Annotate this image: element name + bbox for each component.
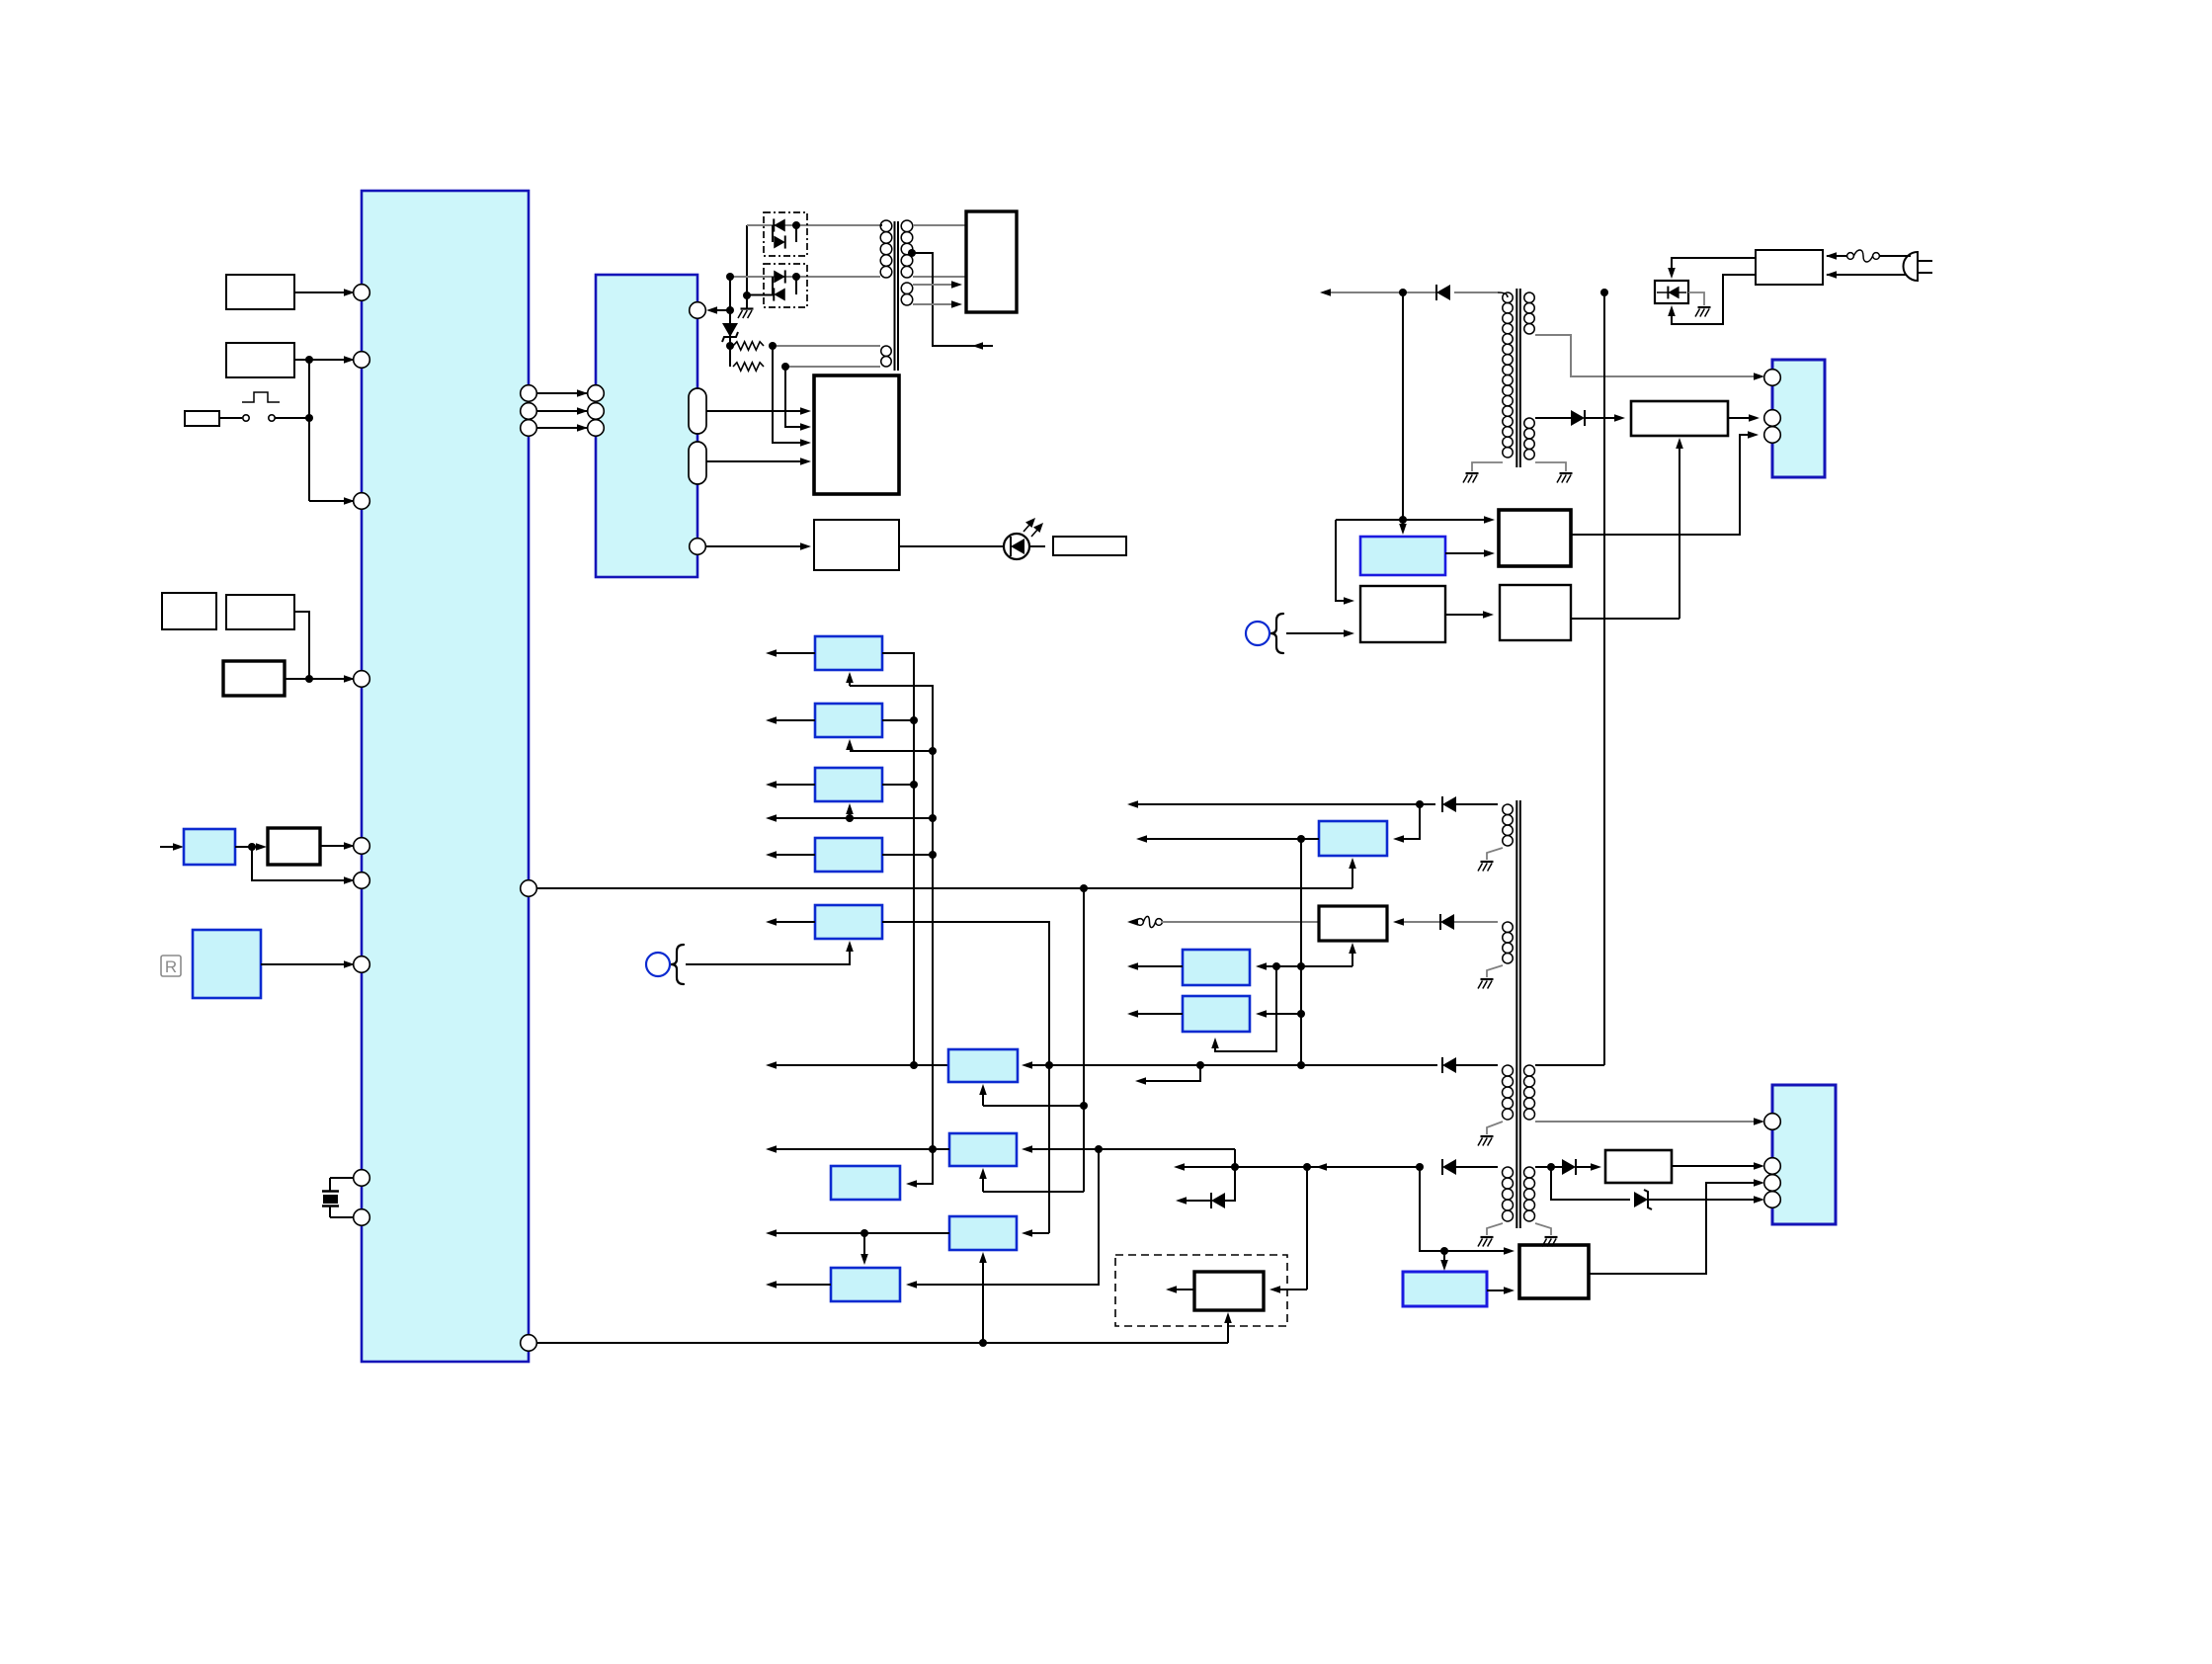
wire WB2 to WB3: [1445, 614, 1488, 616]
wire zener branch: [729, 277, 731, 367]
block LED driver: [814, 520, 899, 570]
optocoupler PC1: [764, 212, 807, 256]
transformer T2 core: [1516, 289, 1517, 467]
wire bus1 branch: [1083, 888, 1085, 1192]
wire W4 right: [1029, 1148, 1235, 1150]
block B8: [268, 828, 320, 865]
wire bus2 up: [1227, 1318, 1229, 1343]
wire W8 to CB2: [1264, 965, 1276, 967]
wire R12 out gray: [785, 366, 880, 368]
wire D3 to T3: [1456, 1064, 1498, 1066]
wire WB3 to REG1: [1571, 618, 1679, 620]
wire W9 feedback: [1336, 520, 1349, 601]
wire plug top: [1827, 255, 1846, 257]
wire pill2 to PA1: [706, 460, 803, 462]
node bus1 taps: [910, 716, 918, 724]
diode PC2a: [784, 270, 786, 283]
wire J bottom: [982, 1259, 984, 1343]
block A6: [223, 661, 285, 696]
block BB: [1519, 1245, 1589, 1298]
wire REGE right: [882, 922, 1049, 1233]
diode D3: [1441, 1057, 1443, 1073]
wire T1 aux2 gray: [913, 303, 954, 305]
wire T2 primary bottom gray: [1472, 462, 1503, 471]
wire A5 down: [294, 612, 309, 679]
icon remote R: [161, 956, 181, 976]
block SB standby: [1499, 510, 1571, 566]
zener ZD1: [722, 323, 738, 337]
wire bus1 to CB1: [1352, 864, 1353, 888]
wire W0 gray: [1331, 291, 1435, 293]
wire bus1: [536, 887, 1352, 889]
wire REG2 to CN2: [1672, 1165, 1759, 1167]
block LED label: [1053, 537, 1126, 555]
wire D7 out: [1187, 1200, 1211, 1202]
diode PC1b: [784, 235, 786, 248]
block REG1: [1631, 401, 1728, 436]
wire C3 to WB2: [1286, 632, 1349, 634]
wire REGD right: [882, 854, 933, 856]
ground G9: [1545, 1236, 1558, 1238]
wire W3 stub: [1146, 1065, 1200, 1081]
connector CN1: [1772, 360, 1825, 477]
block M1: [1194, 1272, 1264, 1310]
wire A6 to U1: [285, 678, 309, 680]
wire D1 to T3: [1456, 803, 1498, 805]
block CB5 cyan: [1360, 537, 1445, 575]
wire REG C out left: [777, 784, 815, 786]
block CB2 cyan: [1183, 950, 1250, 985]
wire bus2: [536, 1342, 1228, 1344]
diode D0: [1435, 285, 1437, 300]
wire W2 link: [1136, 921, 1138, 923]
wire M1 in: [1280, 1289, 1307, 1290]
wire REGC right: [882, 784, 914, 786]
wire B7 to B8: [235, 846, 252, 848]
block AC filter: [1756, 250, 1823, 285]
wire R11 out gray: [770, 345, 880, 347]
block A3 power switch unit: [185, 411, 219, 426]
LED light arrows: [1024, 524, 1030, 532]
block A1: [226, 275, 294, 309]
transformer T3 S2: [1503, 922, 1514, 933]
wire P2 to D5: [1551, 1166, 1562, 1168]
block J cyan: [949, 1216, 1017, 1250]
wire v1420: [1402, 292, 1404, 527]
wire REG B out left: [777, 719, 815, 721]
crystal X1: [330, 1177, 354, 1179]
wire CB1 left: [1147, 838, 1319, 840]
wire K out: [777, 1284, 831, 1286]
IC U2 mechanism control block: [596, 275, 697, 577]
wire to RB6 bottom: [983, 1105, 1084, 1107]
wire T1 aux1 gray: [913, 284, 954, 286]
wire M1 out: [1177, 1289, 1194, 1290]
transformer T3 P1: [1524, 1065, 1535, 1076]
dashed outline: [1115, 1255, 1287, 1326]
block REG2: [1605, 1150, 1672, 1183]
block CB1 cyan: [1319, 821, 1387, 856]
block fan driver FB1: [966, 211, 1017, 312]
wire REG A out left: [777, 652, 815, 654]
block RB6 cyan: [948, 1049, 1018, 1082]
wire opto left vertical: [746, 225, 748, 295]
LED D10: [1004, 534, 1029, 559]
wire W6 mid: [1235, 1166, 1420, 1168]
wire R11 to AMP: [773, 346, 803, 443]
ground G2: [1466, 472, 1479, 474]
switch S1 push type: [219, 417, 242, 419]
wire T1 tap: [912, 253, 993, 346]
wire C2 to REGE: [686, 947, 850, 964]
block H cyan: [831, 1166, 900, 1200]
ground G5: [1481, 861, 1494, 863]
block REG A cyan: [815, 636, 882, 670]
wire W3: [777, 1064, 948, 1066]
wire W6 left: [1185, 1166, 1235, 1168]
wire AC line2 gray: [730, 276, 880, 278]
wire SB to CN1 pin3: [1571, 435, 1753, 535]
diode D6: [1584, 410, 1586, 426]
wire WB1 bottom: [1352, 949, 1353, 966]
transformer T1 feedback winding: [881, 346, 892, 357]
pill pins U2: [689, 388, 706, 434]
block WB1: [1319, 906, 1387, 941]
wire REG D out left: [777, 854, 815, 856]
ground G4: [1698, 306, 1711, 308]
block A2: [226, 343, 294, 377]
node R-divider: [726, 342, 734, 350]
connector ring C2: [646, 953, 670, 976]
wire T1 sec bot gray: [913, 276, 966, 278]
wire T2 sec1 out gray: [1535, 335, 1759, 376]
transformer T2 sec1: [1524, 292, 1535, 303]
wire T2 sec2 to D6: [1535, 417, 1571, 419]
wire REGA bottom feed: [849, 683, 851, 686]
wire REGA right: [882, 653, 914, 1065]
wire BB out: [1589, 1183, 1759, 1274]
wire A1 to U1: [294, 291, 355, 293]
wire AC line1 gray: [747, 224, 880, 226]
wire REG1 bottom: [1679, 444, 1680, 619]
diode PC2b: [773, 288, 775, 300]
ground G8: [1481, 1236, 1494, 1238]
wire REG1 to CN1: [1728, 417, 1754, 419]
wire R12 to AMP: [785, 367, 803, 427]
wire W1 to CB1: [1401, 804, 1420, 839]
diode D2: [1439, 914, 1441, 930]
wire U1 to U2 y416: [536, 410, 588, 412]
block CB3 cyan: [1183, 996, 1250, 1032]
wire T3 P1 top: [1535, 1064, 1604, 1066]
wire v1317: [1300, 839, 1302, 1065]
IC U1 main system control block: [362, 191, 529, 1362]
wire U1 to U2 y398: [536, 392, 588, 394]
wire pin to node: [714, 309, 730, 311]
wire filter to bridge bottom: [1672, 275, 1756, 324]
transformer T2 primary: [1503, 292, 1513, 302]
transformer T1 secondary: [901, 220, 913, 232]
wire D6 to REG1: [1585, 417, 1619, 419]
transformer T1 aux winding: [901, 283, 913, 294]
wire W9: [1336, 519, 1489, 521]
wire T3 S4 gnd gray: [1487, 1223, 1503, 1235]
diode PC1a: [773, 218, 775, 231]
wire REGB bottom feed: [846, 739, 854, 750]
block A4: [162, 593, 216, 629]
wire plug top2: [1879, 255, 1911, 257]
wire driver to LED: [899, 545, 1004, 547]
wire pill1 to PA1: [706, 410, 803, 412]
wire filter to bridge top: [1672, 258, 1756, 273]
wire zener branch2: [1551, 1167, 1630, 1200]
svg-text:R: R: [165, 957, 177, 976]
fuse F1: [1847, 253, 1854, 260]
wire switch bus down: [308, 360, 310, 501]
zener ZD2: [1634, 1192, 1648, 1207]
wire to CB4: [1443, 1251, 1445, 1264]
wire x1112 to K: [914, 1149, 1099, 1285]
diode D4: [1441, 1159, 1443, 1175]
wire T2 sec2 bottom gray: [1535, 462, 1566, 471]
wire W6 to BB: [1420, 1167, 1509, 1251]
wire U2 to LED driver: [705, 545, 803, 547]
block REG C cyan: [815, 768, 882, 801]
connector CN2: [1772, 1085, 1836, 1224]
transformer T3 S4: [1503, 1167, 1514, 1178]
wire REGB right: [882, 719, 914, 721]
wire ZD2 to CN2: [1648, 1199, 1759, 1201]
wire v1624: [1603, 292, 1605, 1065]
transformer T1 core: [894, 221, 896, 371]
wire D2 to T3 gray: [1454, 921, 1498, 923]
wire W7: [777, 1232, 949, 1234]
block CB4 cyan: [1403, 1272, 1487, 1306]
wire bridge gnd gray: [1688, 292, 1704, 305]
wire W2 gray: [1162, 921, 1319, 923]
transformer T3 core: [1516, 800, 1517, 1228]
wire v1292 to CB3: [1215, 966, 1276, 1051]
resistor R12: [733, 363, 764, 371]
wire B7 branch to U1: [252, 847, 355, 880]
wire CB2 left: [1138, 965, 1183, 967]
block REG D cyan: [815, 838, 882, 872]
block A5: [226, 595, 294, 629]
wire CB4 to BB: [1487, 1290, 1509, 1291]
wire to G bottom: [983, 1191, 1084, 1193]
node W0 b: [1600, 289, 1608, 296]
wire U1 to U2 y433: [536, 427, 588, 429]
wire PC2 internals: [772, 277, 774, 294]
transformer T3 S1: [1503, 804, 1514, 815]
wire W8: [1276, 965, 1352, 967]
wire PC1 internals: [772, 225, 774, 242]
AC plug P1: [1904, 252, 1918, 281]
transformer T3 S3: [1503, 1065, 1514, 1076]
node T1 tap: [908, 249, 916, 257]
diode D7: [1210, 1193, 1212, 1208]
block B7 cyan: [184, 829, 235, 865]
wire B9 to U1: [261, 963, 355, 965]
ground G7: [1481, 1135, 1494, 1137]
wire D5 to REG2: [1576, 1166, 1596, 1168]
wire into B7: [160, 846, 174, 848]
optocoupler PC2: [764, 264, 807, 307]
ground G1: [746, 295, 748, 308]
transformer T3 P2: [1524, 1167, 1535, 1178]
resistor R11: [733, 342, 764, 350]
node bus1 b: [1080, 1102, 1088, 1110]
wire A2 junction: [294, 359, 309, 361]
block WB3: [1500, 585, 1571, 640]
wire plug bottom: [1827, 274, 1907, 276]
block K cyan: [831, 1268, 900, 1301]
wire T3 S3 gnd gray: [1487, 1122, 1503, 1134]
wire T3 S1 gnd gray: [1487, 848, 1503, 860]
wire LED out: [1029, 545, 1045, 547]
bridge rectifier BR1: [1655, 281, 1688, 303]
connector ring C3: [1246, 622, 1270, 645]
block G cyan: [949, 1133, 1017, 1166]
wire W1: [1138, 803, 1435, 805]
diode D5: [1575, 1159, 1577, 1175]
ground G6: [1481, 978, 1494, 980]
wire T3 P2 top: [1535, 1166, 1551, 1168]
wire D7 branch: [1225, 1167, 1235, 1201]
wire CB3 right: [1264, 1013, 1301, 1015]
node W0 a: [1399, 289, 1407, 296]
ground G3: [1560, 472, 1573, 474]
wire T3 P2 gnd gray: [1535, 1223, 1551, 1235]
wire B8 to U1: [320, 845, 355, 847]
wire W3 right: [1029, 1064, 1437, 1066]
wire x944 to H: [914, 1149, 933, 1184]
wire J right: [1029, 1232, 1049, 1234]
block WB2: [1360, 586, 1445, 642]
transformer T1 primary: [880, 220, 892, 232]
wire W4: [777, 1148, 949, 1150]
transformer T2 sec2: [1524, 418, 1535, 429]
block REG E cyan: [815, 905, 882, 939]
block REG B cyan: [815, 704, 882, 737]
diode D1: [1441, 796, 1443, 812]
wire T3 P1 out gray: [1535, 1121, 1759, 1123]
wire CB3 left: [1138, 1013, 1183, 1015]
wire W7 to I: [863, 1233, 865, 1257]
wire D4 to T3: [1456, 1166, 1498, 1168]
wire T3 S2 gnd gray: [1487, 965, 1503, 977]
block power amp PA1: [814, 375, 899, 494]
wire W2 right gray: [1401, 921, 1440, 923]
wire T1 sec top gray: [913, 224, 966, 226]
wire CB5 to SB: [1445, 552, 1489, 554]
wire W4 corner: [1234, 1149, 1236, 1167]
IC pin circles: [354, 285, 370, 301]
block B9 IR receiver cyan: [193, 930, 261, 998]
wire REG E out left: [777, 921, 815, 923]
wire REGC bottom feed: [846, 803, 854, 814]
